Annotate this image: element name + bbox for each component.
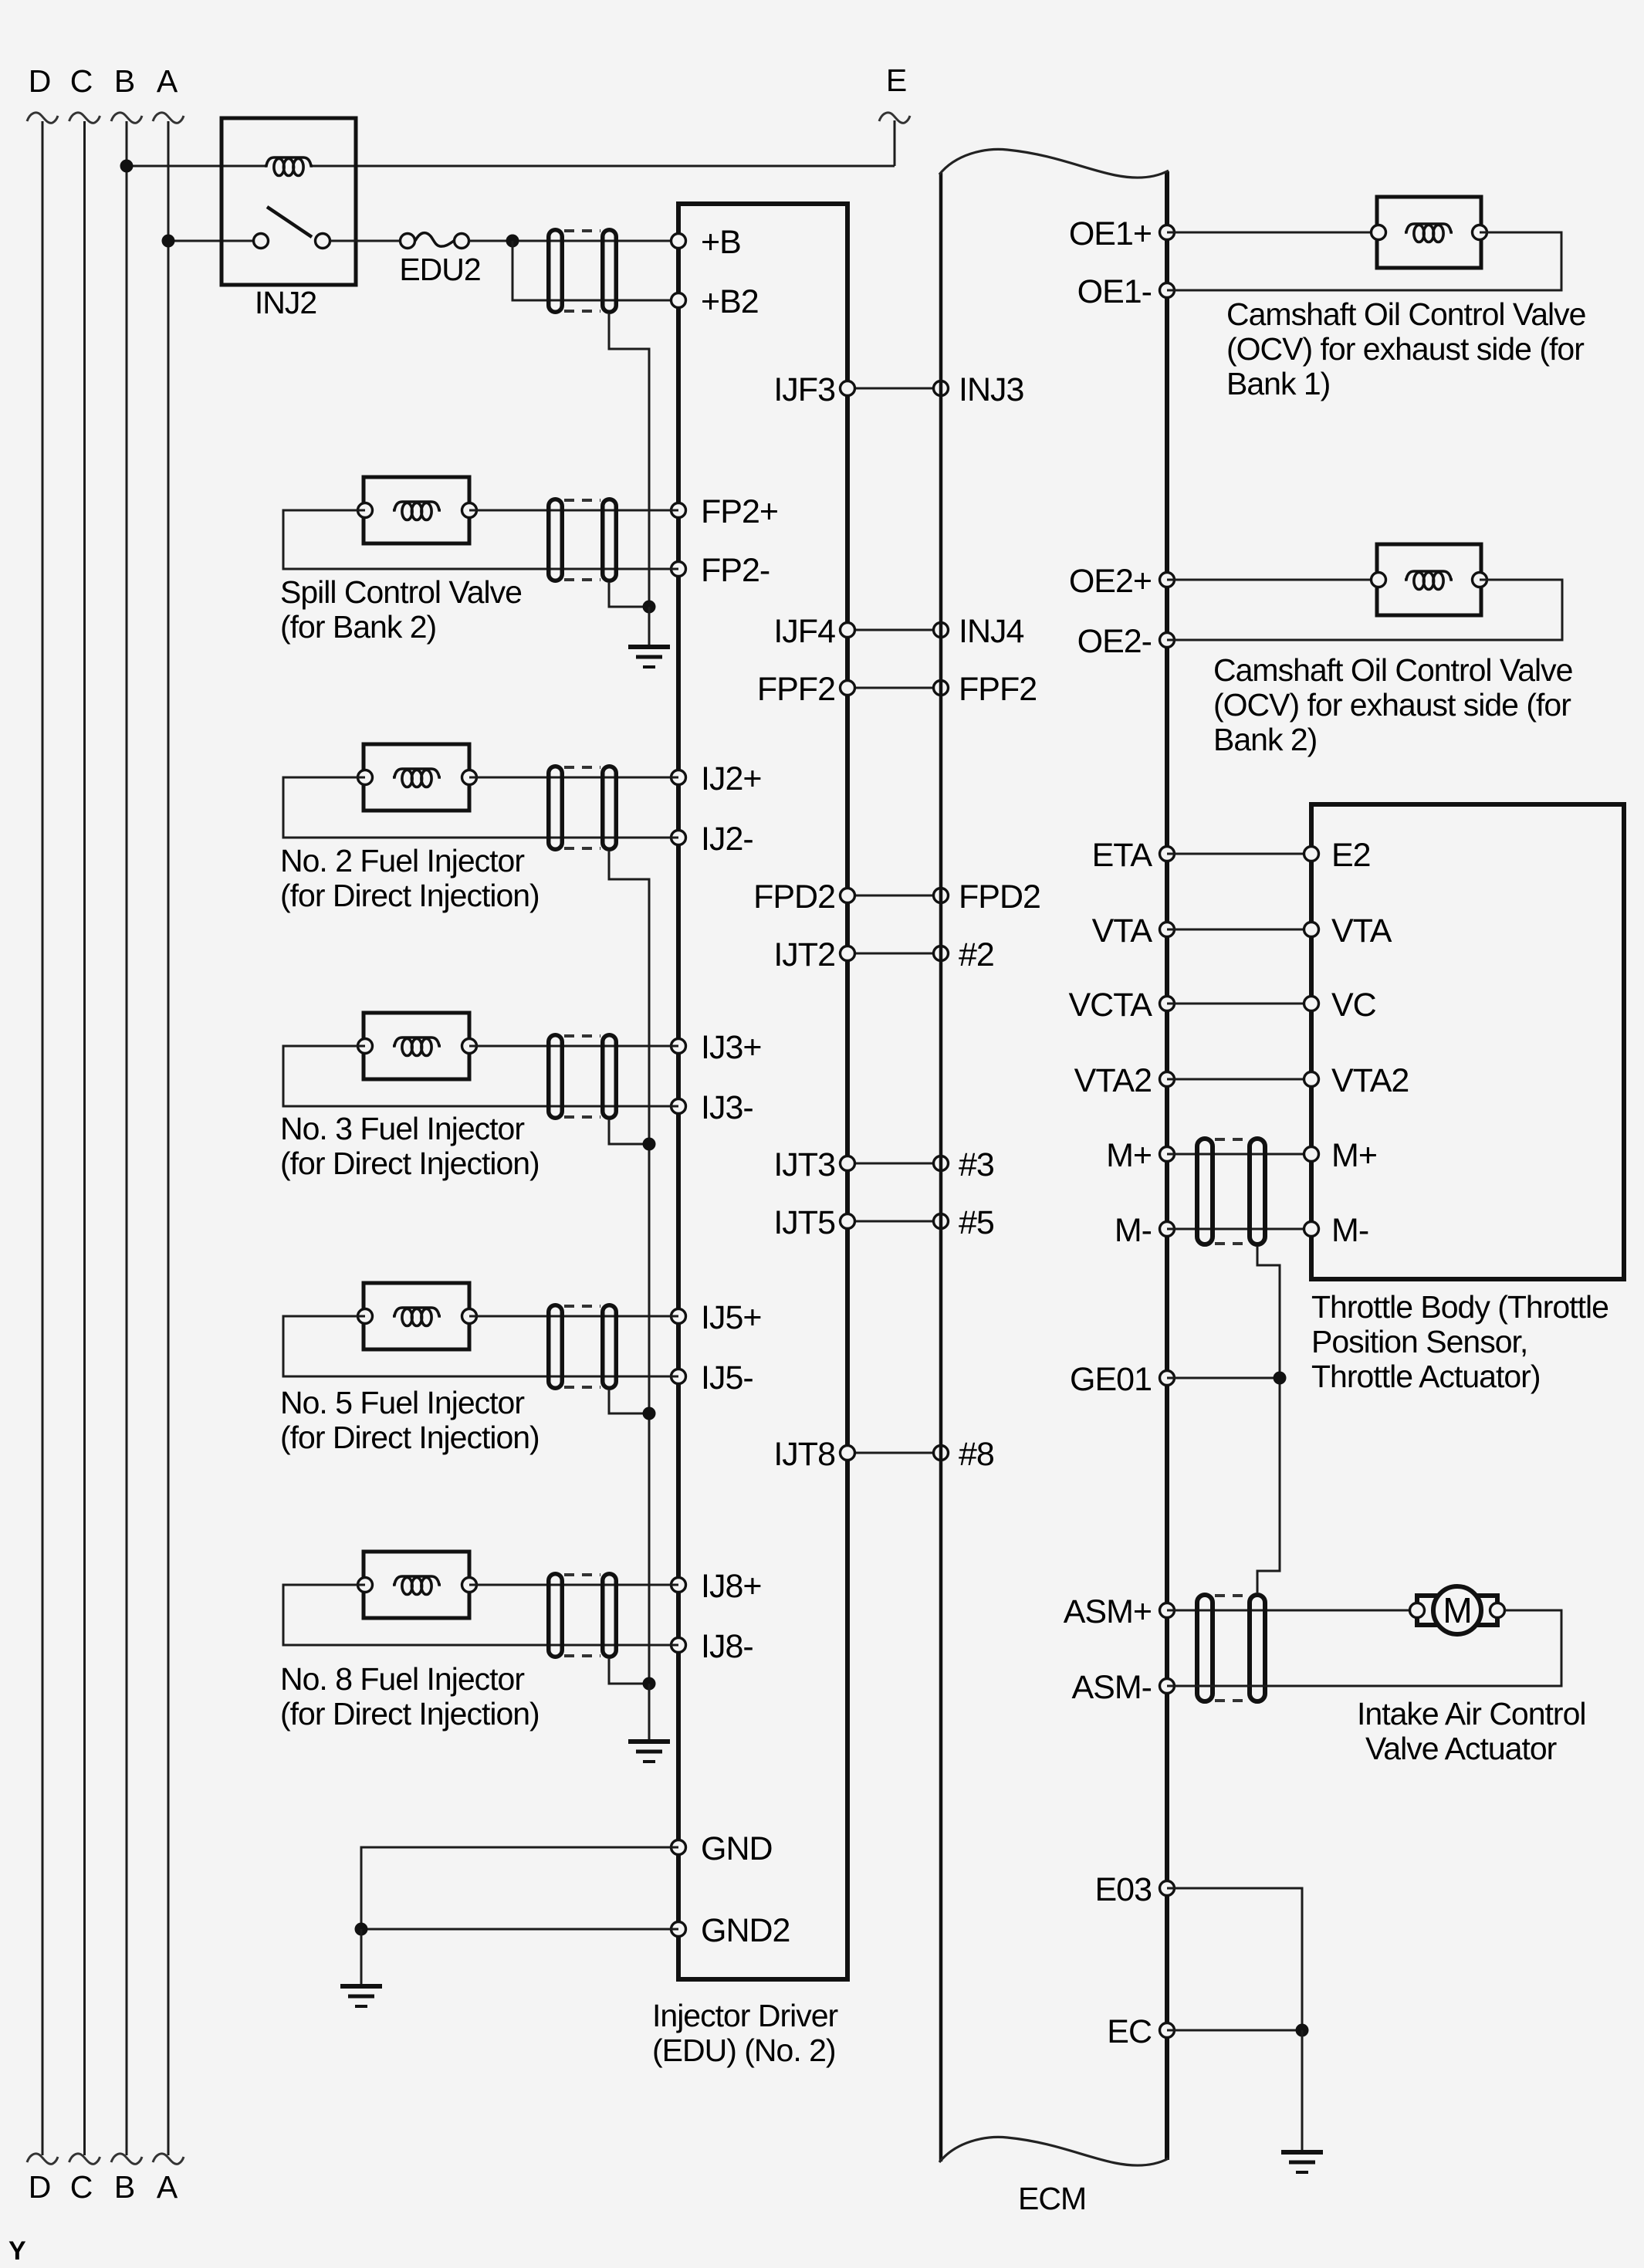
svg-text:ETA: ETA <box>1092 837 1153 874</box>
relay INJ2 coil <box>265 157 313 176</box>
twisted pair injector No.8 <box>549 1574 617 1657</box>
pin GE01 (ECM) <box>1070 1361 1174 1398</box>
svg-text:No. 2 Fuel Injector: No. 2 Fuel Injector <box>280 843 524 878</box>
twisted pair ASM <box>1197 1595 1265 1701</box>
pin M- (throttle body) <box>1304 1212 1369 1249</box>
wire fuse to pin +B <box>469 240 678 242</box>
wire VCTA to throttle VC <box>1167 1003 1311 1005</box>
svg-text:OE2-: OE2- <box>1077 623 1152 660</box>
svg-text:VCTA: VCTA <box>1069 987 1153 1024</box>
wire injector No.3 + lead <box>469 1045 678 1048</box>
label injector No.8 <box>280 1661 540 1731</box>
svg-text:#8: #8 <box>959 1436 994 1473</box>
camshaft OCV bank1 <box>1372 197 1487 268</box>
ECM body right edge <box>1165 171 1169 2160</box>
wire IJ5 shield drain <box>609 1390 649 1413</box>
pin FPD2 (ECM) <box>934 878 1040 916</box>
relay INJ2 box <box>222 118 356 285</box>
pin VTA (throttle body) <box>1304 912 1392 950</box>
fuse EDU2 <box>401 233 469 249</box>
svg-text:(for Direct Injection): (for Direct Injection) <box>280 1696 540 1731</box>
svg-text:INJ3: INJ3 <box>959 371 1024 408</box>
pin #5 (ECM) <box>934 1204 994 1241</box>
pin VTA2 (ECM) <box>1074 1062 1175 1099</box>
motor M (intake air control valve actuator) <box>1410 1586 1505 1634</box>
svg-text:IJ5-: IJ5- <box>701 1359 753 1396</box>
pin #2 (ECM) <box>934 936 994 973</box>
injector No.5 <box>358 1283 477 1349</box>
wire OE1+ to OCV1 <box>1167 232 1377 234</box>
wire injector No.3 - lead <box>283 1046 678 1106</box>
svg-text:No. 3 Fuel Injector: No. 3 Fuel Injector <box>280 1111 524 1146</box>
svg-text:ECM: ECM <box>1018 2181 1086 2216</box>
label spill control valve SCV <box>280 574 522 645</box>
svg-text:M+: M+ <box>1106 1137 1152 1174</box>
pin IJ8- <box>671 1628 753 1665</box>
twisted pair injector No.3 <box>549 1035 617 1119</box>
label injector No.3 <box>280 1111 540 1181</box>
svg-text:EDU2: EDU2 <box>399 252 480 287</box>
pin FPF2 (ECM) <box>934 671 1037 708</box>
label injector No.2 <box>280 843 540 913</box>
wire IJT3 to #3 <box>847 1163 941 1165</box>
svg-text:IJ3+: IJ3+ <box>701 1029 761 1066</box>
svg-text:IJ8+: IJ8+ <box>701 1568 761 1605</box>
pin OE1- (ECM) <box>1077 273 1175 310</box>
svg-text:IJF3: IJF3 <box>773 371 835 408</box>
bus wire D <box>27 63 58 2205</box>
wire to shield ground <box>648 607 651 647</box>
wire spill control valve SCV - lead <box>283 510 678 569</box>
wire M shield drain to GE01 <box>1257 1247 1280 1593</box>
pin M+ (ECM) <box>1106 1137 1174 1174</box>
wire injector No.2 + lead <box>469 777 678 779</box>
wire ETA to throttle E2 <box>1167 853 1311 855</box>
bus wire B <box>111 63 142 2205</box>
label camshaft OCV bank2 <box>1213 652 1572 757</box>
wire to ECM ground <box>1301 2030 1304 2152</box>
ground (spill valve shield) <box>628 647 670 667</box>
wire FP2 shield drain <box>609 583 649 607</box>
junction +B branch <box>506 235 519 248</box>
svg-text:Valve Actuator: Valve Actuator <box>1365 1731 1557 1766</box>
wire A to INJ2 switch <box>168 240 253 242</box>
wire IJ3 shield drain <box>609 1120 649 1144</box>
pin IJT3 <box>773 1146 854 1183</box>
svg-text:E2: E2 <box>1331 837 1371 874</box>
svg-text:IJ8-: IJ8- <box>701 1628 753 1665</box>
svg-text:Injector Driver: Injector Driver <box>652 1998 838 2033</box>
label injector No.5 <box>280 1385 540 1455</box>
bus wire A <box>153 63 184 2205</box>
twisted pair injector No.5 <box>549 1305 617 1389</box>
wire IJT2 to #2 <box>847 953 941 955</box>
ground (EDU) <box>340 1986 382 2006</box>
relay INJ2 switch <box>254 207 330 249</box>
junction IJ3 drain <box>643 1138 656 1151</box>
pin IJ2+ <box>671 760 762 797</box>
svg-text:E03: E03 <box>1094 1871 1152 1908</box>
svg-text:C: C <box>70 63 93 99</box>
wire ASM+ to motor <box>1167 1610 1409 1612</box>
ground (ECM) <box>1281 2152 1323 2172</box>
svg-text:Position Sensor,: Position Sensor, <box>1311 1324 1527 1359</box>
svg-text:M: M <box>1443 1590 1471 1630</box>
wire M+ to throttle M+ <box>1167 1153 1311 1156</box>
svg-text:OE1+: OE1+ <box>1069 215 1152 252</box>
svg-text:C: C <box>70 2169 93 2205</box>
svg-text:IJ3-: IJ3- <box>701 1089 753 1126</box>
svg-text:(for Bank 2): (for Bank 2) <box>280 609 436 645</box>
wire IJF3 to INJ3 <box>847 388 941 390</box>
svg-text:IJT8: IJT8 <box>773 1436 835 1473</box>
wire GND2 <box>361 1928 678 1931</box>
wire GE01 <box>1167 1377 1280 1379</box>
svg-text:Throttle Actuator): Throttle Actuator) <box>1311 1359 1540 1394</box>
pin #8 (ECM) <box>934 1436 994 1473</box>
wire INJ2 coil to E <box>313 165 895 168</box>
pin GND2 <box>671 1912 790 1949</box>
svg-text:FP2-: FP2- <box>701 552 770 589</box>
svg-text:ASM+: ASM+ <box>1064 1593 1152 1630</box>
junction GND2 <box>355 1923 368 1936</box>
label throttle body <box>1311 1289 1608 1394</box>
svg-text:EC: EC <box>1107 2013 1152 2050</box>
svg-text:IJF4: IJF4 <box>773 613 835 650</box>
wire branch to +B2 <box>512 241 678 300</box>
wire IJ2 shield drain <box>609 851 649 1742</box>
pin IJF4 <box>773 613 854 650</box>
pin VCTA (ECM) <box>1069 987 1175 1024</box>
wire E03 <box>1167 1888 1302 2030</box>
svg-text:VTA: VTA <box>1092 912 1153 950</box>
pin IJ5- <box>671 1359 753 1396</box>
svg-text:GE01: GE01 <box>1070 1361 1152 1398</box>
pin IJ2- <box>671 821 753 858</box>
label camshaft OCV bank1 <box>1226 296 1585 401</box>
svg-text:INJ2: INJ2 <box>255 285 316 320</box>
pin OE2+ (ECM) <box>1069 563 1175 600</box>
injector No.3 <box>358 1013 477 1079</box>
svg-text:Camshaft Oil Control Valve: Camshaft Oil Control Valve <box>1226 296 1585 332</box>
wire FPD2 to FPD2 <box>847 895 941 897</box>
pin IJ8+ <box>671 1568 762 1605</box>
svg-text:E: E <box>886 63 906 98</box>
wire OE2+ to OCV2 <box>1167 579 1377 581</box>
twisted pair spill control valve SCV <box>549 499 617 581</box>
junction EC <box>1296 2024 1309 2037</box>
svg-text:No. 8 Fuel Injector: No. 8 Fuel Injector <box>280 1661 524 1697</box>
junction GE01 <box>1274 1372 1287 1385</box>
wire to EDU ground <box>360 1929 363 1986</box>
twisted pair +B/+B2 <box>549 230 617 313</box>
svg-text:M-: M- <box>1115 1212 1152 1249</box>
wire B to INJ2 coil <box>127 165 265 168</box>
wire motor return to ASM- <box>1167 1610 1561 1686</box>
pin +B <box>671 224 741 261</box>
wire FPF2 to FPF2 <box>847 687 941 689</box>
svg-text:FPD2: FPD2 <box>753 878 835 916</box>
spill control valve SCV <box>358 477 477 543</box>
wire injector No.5 - lead <box>283 1316 678 1376</box>
pin IJ5+ <box>671 1299 762 1336</box>
pin IJ3- <box>671 1089 753 1126</box>
svg-text:No. 5 Fuel Injector: No. 5 Fuel Injector <box>280 1385 524 1420</box>
wire OCV2 return to OE2- <box>1167 580 1562 640</box>
svg-text:INJ4: INJ4 <box>959 613 1024 650</box>
svg-text:ASM-: ASM- <box>1072 1669 1152 1706</box>
label intake air control valve actuator <box>1357 1696 1586 1766</box>
injector No.2 <box>358 744 477 811</box>
svg-text:VC: VC <box>1331 987 1376 1024</box>
pin INJ4 (ECM) <box>934 613 1024 650</box>
svg-text:B: B <box>114 2169 134 2205</box>
svg-text:M+: M+ <box>1331 1137 1377 1174</box>
svg-text:Camshaft Oil Control Valve: Camshaft Oil Control Valve <box>1213 652 1572 688</box>
wire IJT5 to #5 <box>847 1220 941 1223</box>
bus wire C <box>69 63 100 2205</box>
pin ASM- (ECM) <box>1072 1669 1175 1706</box>
svg-text:IJT2: IJT2 <box>773 936 835 973</box>
svg-text:(for Direct Injection): (for Direct Injection) <box>280 878 540 913</box>
svg-text:+B2: +B2 <box>701 283 759 320</box>
svg-text:VTA2: VTA2 <box>1331 1062 1409 1099</box>
svg-text:Spill Control Valve: Spill Control Valve <box>280 574 522 610</box>
svg-text:GND2: GND2 <box>701 1912 790 1949</box>
svg-text:Bank 2): Bank 2) <box>1213 722 1317 757</box>
junction FP2 ground <box>643 601 656 614</box>
svg-text:FPD2: FPD2 <box>959 878 1040 916</box>
svg-text:(for Direct Injection): (for Direct Injection) <box>280 1420 540 1455</box>
node E <box>879 63 910 166</box>
svg-text:D: D <box>29 63 51 99</box>
wire injector No.2 - lead <box>283 777 678 838</box>
ECM body left edge <box>939 173 943 2161</box>
svg-text:IJ5+: IJ5+ <box>701 1299 761 1336</box>
svg-text:GND: GND <box>701 1830 773 1867</box>
svg-text:Throttle Body (Throttle: Throttle Body (Throttle <box>1311 1289 1608 1325</box>
pin IJF3 <box>773 371 854 408</box>
pin INJ3 (ECM) <box>934 371 1024 408</box>
pin ETA (ECM) <box>1092 837 1175 874</box>
svg-text:(OCV) for exhaust side (for: (OCV) for exhaust side (for <box>1213 687 1571 723</box>
junction on bus A <box>162 235 175 248</box>
svg-text:B: B <box>114 63 134 99</box>
ECM torn bottom edge <box>939 2137 1169 2165</box>
svg-text:+B: +B <box>701 224 741 261</box>
twisted pair M+/M- <box>1197 1139 1265 1244</box>
svg-text:VTA2: VTA2 <box>1074 1062 1152 1099</box>
wire injector No.5 + lead <box>469 1315 678 1318</box>
wire injector No.8 + lead <box>469 1584 678 1586</box>
junction IJ5 drain <box>643 1407 656 1420</box>
pin IJT8 <box>773 1436 854 1473</box>
svg-text:OE1-: OE1- <box>1077 273 1152 310</box>
pin FP2+ <box>671 493 778 530</box>
pin VC (throttle body) <box>1304 987 1376 1024</box>
pin IJ3+ <box>671 1029 762 1066</box>
wire EC <box>1167 2029 1302 2032</box>
pin OE1+ (ECM) <box>1069 215 1175 252</box>
ECM torn top edge <box>939 149 1169 178</box>
wire OCV1 return to OE1- <box>1167 232 1561 290</box>
svg-text:#5: #5 <box>959 1204 994 1241</box>
svg-text:D: D <box>29 2169 51 2205</box>
svg-text:FPF2: FPF2 <box>959 671 1037 708</box>
pin E03 (ECM) <box>1094 1871 1174 1908</box>
pin FPD2 <box>753 878 854 916</box>
svg-text:A: A <box>157 63 178 99</box>
pin IJT2 <box>773 936 854 973</box>
wire INJ2 to fuse EDU2 <box>330 240 400 242</box>
wire IJ8 shield drain <box>609 1659 649 1684</box>
svg-text:FP2+: FP2+ <box>701 493 778 530</box>
svg-text:(OCV) for exhaust side (for: (OCV) for exhaust side (for <box>1226 331 1584 367</box>
svg-text:(EDU) (No. 2): (EDU) (No. 2) <box>652 2033 836 2068</box>
svg-text:Bank 1): Bank 1) <box>1226 366 1330 401</box>
pin #3 (ECM) <box>934 1146 994 1183</box>
junction on bus B <box>120 160 134 173</box>
svg-text:A: A <box>157 2169 178 2205</box>
pin E2 (throttle body) <box>1304 837 1371 874</box>
camshaft OCV bank2 <box>1372 544 1487 615</box>
pin EC (ECM) <box>1107 2013 1174 2050</box>
svg-text:IJ2+: IJ2+ <box>701 760 761 797</box>
wire GND <box>361 1847 678 1929</box>
svg-text:#3: #3 <box>959 1146 994 1183</box>
pin OE2- (ECM) <box>1077 623 1175 660</box>
twisted pair injector No.2 <box>549 767 617 850</box>
pin VTA (ECM) <box>1092 912 1175 950</box>
svg-text:#2: #2 <box>959 936 994 973</box>
svg-text:VTA: VTA <box>1331 912 1392 950</box>
svg-text:Intake Air Control: Intake Air Control <box>1357 1696 1586 1731</box>
wire IJT8 to #8 <box>847 1452 941 1454</box>
wire VTA2 to throttle VTA2 <box>1167 1078 1311 1081</box>
pin IJT5 <box>773 1204 854 1241</box>
wire spill control valve SCV + lead <box>469 509 678 512</box>
throttle body box <box>1311 804 1624 1279</box>
injector No.8 <box>358 1552 477 1618</box>
wire M- to throttle M- <box>1167 1228 1311 1230</box>
label injector driver EDU <box>652 1998 838 2068</box>
pin GND <box>671 1830 773 1867</box>
injector driver EDU box <box>678 204 847 1979</box>
junction IJ8 drain <box>643 1677 656 1691</box>
wire VTA to throttle VTA <box>1167 929 1311 931</box>
pin FP2- <box>671 552 770 589</box>
pin VTA2 (throttle body) <box>1304 1062 1409 1099</box>
svg-text:IJT3: IJT3 <box>773 1146 835 1183</box>
wire +B2 shield to ground chain <box>609 314 649 607</box>
pin FPF2 <box>757 671 855 708</box>
pin +B2 <box>671 283 759 320</box>
svg-text:OE2+: OE2+ <box>1069 563 1152 600</box>
pin M- (ECM) <box>1115 1212 1175 1249</box>
wire to injector shield ground <box>648 1684 651 1742</box>
wire injector No.8 - lead <box>283 1585 678 1645</box>
svg-text:Y: Y <box>8 2236 26 2266</box>
svg-text:M-: M- <box>1331 1212 1368 1249</box>
wire IJF4 to INJ4 <box>847 629 941 631</box>
svg-text:IJT5: IJT5 <box>773 1204 835 1241</box>
pin M+ (throttle body) <box>1304 1137 1377 1174</box>
svg-text:FPF2: FPF2 <box>757 671 835 708</box>
ground (injector shields) <box>628 1742 670 1762</box>
pin ASM+ (ECM) <box>1064 1593 1175 1630</box>
svg-text:(for Direct Injection): (for Direct Injection) <box>280 1146 540 1181</box>
svg-text:IJ2-: IJ2- <box>701 821 753 858</box>
